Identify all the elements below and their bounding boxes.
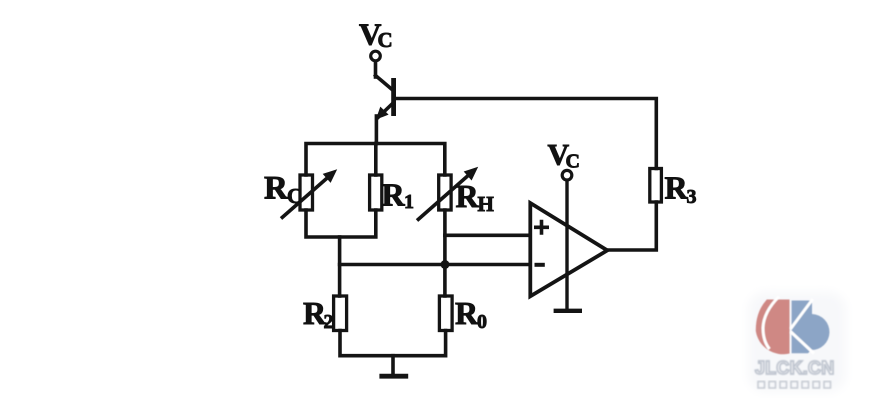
svg-text:H: H bbox=[478, 192, 494, 216]
svg-text:1: 1 bbox=[404, 191, 414, 213]
svg-text:3: 3 bbox=[687, 186, 697, 208]
svg-text:C: C bbox=[287, 184, 302, 208]
svg-text:0: 0 bbox=[477, 311, 487, 333]
svg-text:JLCK.CN: JLCK.CN bbox=[755, 358, 834, 378]
svg-text:R: R bbox=[456, 178, 480, 214]
svg-text:R: R bbox=[455, 295, 479, 331]
svg-text:2: 2 bbox=[324, 311, 334, 333]
svg-text:C: C bbox=[378, 28, 393, 52]
svg-text:R: R bbox=[382, 177, 406, 213]
svg-text:R: R bbox=[264, 171, 289, 207]
svg-text:C: C bbox=[566, 151, 580, 173]
svg-text:R: R bbox=[665, 170, 689, 206]
